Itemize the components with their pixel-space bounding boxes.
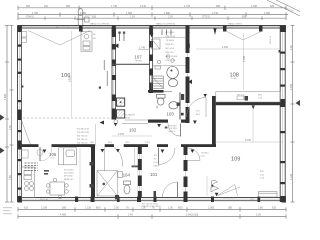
svg-text:2.06: 2.06 (256, 214, 261, 217)
svg-text:4.485: 4.485 (60, 214, 67, 217)
bath shelf line (154, 37, 185, 39)
svg-text:DU 90/90: DU 90/90 (166, 32, 176, 34)
interior wall W6 right segment (181, 120, 190, 123)
bottom dimension row1 (18, 207, 286, 211)
left wall handle dot (22, 86, 24, 88)
door leaf 105 (39, 147, 41, 161)
door threshold 104 (132, 166, 142, 168)
door arc hall to 108 (187, 98, 207, 118)
svg-text:ABL. DN100: ABL. DN100 (166, 55, 178, 58)
bottom wall tilt triangle (218, 185, 238, 196)
105 wall boxes left (22, 150, 43, 159)
door arc 105 (40, 148, 52, 162)
105 text cluster (64, 170, 74, 181)
door arc corridor to 109 (188, 148, 201, 161)
109 window tilt leaf (219, 187, 241, 195)
svg-text:2.01 DIN: 2.01 DIN (169, 128, 178, 130)
svg-text:1.26: 1.26 (130, 16, 135, 19)
arrow below W3 pier (150, 33, 154, 38)
svg-text:SCHACHT: SCHACHT (125, 114, 136, 117)
W5 thin continuation (164, 90, 173, 92)
107 door tags (120, 32, 125, 41)
arrow below W4 pier (186, 33, 190, 37)
door leaf 103 (180, 124, 182, 137)
door arc 101 bottom (177, 182, 179, 197)
svg-text:T05 76/2.01: T05 76/2.01 (77, 139, 89, 141)
break line top-right corner (267, 0, 300, 16)
svg-text:K02 60/60: K02 60/60 (64, 173, 74, 175)
arrow at W4 upper (186, 44, 190, 49)
tap mark 103 (177, 103, 180, 106)
dimension line top tier3 (18, 16, 286, 20)
svg-text:TR 60/60: TR 60/60 (166, 40, 175, 42)
interior wall W3 vertical 107/bath (149, 28, 153, 93)
svg-text:T06 76/2.01: T06 76/2.01 (77, 143, 89, 145)
arrow on W7 left (193, 121, 197, 125)
chimney hatched block upper (117, 98, 125, 106)
svg-text:T09 88.5: T09 88.5 (169, 125, 178, 127)
corridor texts above chimney (125, 114, 136, 120)
corridor bottom wall segments (22, 144, 217, 147)
door tag 103 (157, 124, 161, 127)
left dimension texts (4, 93, 12, 180)
bottom dimension texts row2 (60, 214, 261, 217)
wall 101/109 vertical (184, 147, 188, 197)
105 dim line vertical (79, 148, 81, 197)
bath partition line y65 (153, 65, 186, 67)
arrow below top wall right (214, 29, 217, 36)
arrow at W4 lower (188, 80, 192, 85)
right wall handle dot (279, 50, 281, 53)
109 fixture cluster (211, 180, 219, 192)
outer wall right: face lines (280, 26, 285, 203)
sink 104 (118, 172, 123, 178)
svg-text:WC 6/0.4: WC 6/0.4 (166, 48, 176, 50)
right dimension column (291, 26, 295, 203)
svg-text:615: 615 (24, 207, 29, 210)
door arc corridor to 101 (158, 148, 160, 165)
vent stack valve box (85, 17, 90, 22)
wall 104/101 vertical (138, 147, 142, 197)
svg-text:76/: 76/ (154, 159, 157, 161)
svg-text:1.00: 1.00 (168, 207, 173, 210)
109 arrow (215, 193, 219, 197)
svg-text:1.49: 1.49 (128, 214, 133, 217)
right edge section mark (296, 100, 301, 106)
svg-text:103: 103 (167, 111, 175, 116)
top wall window spec texts (56, 27, 239, 29)
svg-text:WAND.TOL.FERTIG: WAND.TOL.FERTIG (90, 22, 109, 25)
svg-text:T03 88.5/2.01: T03 88.5/2.01 (77, 132, 91, 134)
bath inner partition (179, 93, 181, 120)
outer wall left: face lines (18, 26, 22, 203)
dashed beam 106 (23, 117, 112, 119)
window V bay1 (28, 31, 90, 46)
sink in 103 (169, 102, 178, 109)
svg-text:385: 385 (66, 5, 71, 8)
svg-text:BW 1.80: BW 1.80 (166, 52, 175, 54)
svg-text:626: 626 (242, 16, 247, 19)
bath double oval fixture (167, 67, 179, 87)
svg-text:F01 1.01/1.26: F01 1.01/1.26 (56, 27, 70, 29)
tall unit 106 right (81, 32, 92, 51)
dimension text top tier2 (32, 12, 271, 15)
interior wall 108 bottom (216, 102, 280, 105)
svg-text:1.860: 1.860 (264, 12, 271, 15)
dim line 106 vertical (71, 31, 73, 117)
svg-text:2.785: 2.785 (290, 83, 293, 90)
svg-text:1.780: 1.780 (32, 12, 39, 15)
bath circle small left (157, 60, 161, 64)
101 tag stack (154, 155, 160, 168)
door tag triangles corridor (43, 149, 195, 153)
outer wall right: glazing line (282, 26, 284, 203)
105 wall tag upper (90, 162, 94, 166)
interior wall W1 vertical 106/107 (112, 28, 116, 120)
bath small rect left (155, 66, 161, 69)
mark right of 103 label (181, 113, 184, 116)
svg-text:1.860: 1.860 (164, 12, 171, 15)
left wall door leaf 106 (22, 121, 31, 145)
floor drain circle 102 (114, 120, 118, 124)
svg-text:4.460: 4.460 (222, 46, 229, 49)
svg-text:4.125: 4.125 (290, 173, 293, 180)
svg-text:4.605: 4.605 (4, 93, 7, 100)
svg-text:2.785: 2.785 (243, 55, 246, 62)
interior wall W2 under 107 (112, 63, 150, 65)
arrow at W1 right (114, 44, 119, 49)
shower corner mark (115, 195, 119, 200)
svg-text:2.790: 2.790 (245, 139, 252, 142)
sideboard right marks (258, 95, 263, 100)
109 dim line horizontal (216, 107, 283, 142)
svg-text:2.56: 2.56 (290, 45, 293, 50)
svg-text:940: 940 (26, 5, 31, 8)
WC in 103 (157, 95, 166, 109)
shelf line 107 (138, 48, 150, 50)
left edge section mark 2 (0, 148, 5, 154)
109 vertical dim line left (206, 176, 208, 196)
bottom dimension texts row1 (24, 207, 277, 210)
svg-text:1.135: 1.135 (85, 207, 92, 210)
svg-text:1.86: 1.86 (9, 175, 12, 180)
svg-text:36/36: 36/36 (125, 118, 131, 120)
svg-text:105: 105 (49, 152, 57, 157)
arrows at corridor left (100, 121, 105, 125)
dimension line top tier2 (18, 12, 288, 16)
svg-text:102: 102 (129, 128, 137, 133)
svg-text:T02 88.5/2.01: T02 88.5/2.01 (77, 129, 91, 131)
svg-text:WAND.TOL.FERTIG: WAND.TOL.FERTIG (156, 22, 175, 25)
svg-text:HERD 60: HERD 60 (64, 179, 74, 181)
107 tag flags (118, 32, 125, 34)
svg-text:WAND.T.FERT: WAND.T.FERT (228, 22, 243, 25)
svg-text:(794.5): (794.5) (26, 16, 34, 19)
outer wall bottom: piers (18, 196, 287, 203)
dimension text top tier1 (26, 5, 275, 8)
corridor dim line (112, 135, 152, 137)
WC in 104 (124, 181, 131, 194)
svg-text:385: 385 (228, 207, 233, 210)
svg-text:T08 88.5/2.01 DIN-R: T08 88.5/2.01 DIN-R (142, 206, 162, 208)
svg-text:1.00: 1.00 (114, 207, 119, 210)
svg-text:1.456: 1.456 (251, 5, 258, 8)
door tags under top wall bay3 (162, 30, 171, 36)
svg-text:F02 1.01/1.26: F02 1.01/1.26 (153, 27, 167, 29)
108 sideboard (216, 92, 280, 102)
bath shower box (152, 39, 161, 49)
svg-text:HWB 50: HWB 50 (166, 44, 175, 46)
corridor top thin lines (122, 120, 148, 124)
svg-text:F11 1.01/1.26: F11 1.01/1.26 (222, 198, 236, 200)
108 item outline (237, 96, 244, 100)
bath duct block (181, 94, 184, 100)
wall 105/104 vertical (91, 147, 95, 197)
svg-text:615: 615 (272, 207, 277, 210)
svg-text:K01 60/60: K01 60/60 (64, 170, 74, 172)
stair ladder bath (152, 76, 164, 89)
left dimension column line2 (10, 26, 14, 203)
109 bench right (259, 192, 278, 198)
interior wall W6 left segment (148, 120, 168, 123)
vent stack above top wall (77, 9, 85, 26)
svg-text:1.745: 1.745 (111, 5, 118, 8)
svg-text:925: 925 (270, 5, 275, 8)
chimney hatched block lower (117, 110, 125, 118)
svg-text:17.65: 17.65 (231, 78, 237, 80)
svg-text:88.5: 88.5 (178, 207, 183, 210)
interior wall W5 horizontal in bath (148, 90, 164, 93)
outer wall right: piers (280, 26, 285, 203)
window V bay right (226, 31, 261, 40)
shower drain dot (103, 183, 106, 186)
105 wall tag lower (90, 184, 94, 188)
svg-text:107: 107 (134, 54, 142, 59)
svg-text:F03 1.26: F03 1.26 (230, 27, 239, 29)
108 sideboard dark item (245, 96, 249, 101)
wall 104/101 face line (134, 148, 136, 168)
104 door text cluster (142, 203, 162, 208)
bath text cluster (166, 32, 178, 62)
corridor texts above wall (91, 142, 152, 144)
svg-text:F05 1.26: F05 1.26 (270, 35, 272, 44)
svg-text:2.56: 2.56 (9, 125, 12, 130)
svg-text:TECHN: TECHN (135, 61, 143, 63)
top wall labels above (90, 22, 243, 25)
svg-text:101: 101 (150, 172, 158, 177)
outer wall bottom: glazing line (18, 198, 287, 200)
hall text cluster (196, 111, 201, 116)
outer wall top: face lines (18, 26, 287, 29)
interior wall W4 vertical bath/108 (186, 28, 190, 123)
drain arrow 102 (114, 123, 117, 126)
105 kitchen counter (22, 167, 35, 197)
svg-text:941: 941 (44, 5, 49, 8)
105 small marks (44, 170, 49, 175)
svg-text:88.5: 88.5 (96, 207, 101, 210)
svg-text:1.860: 1.860 (126, 12, 133, 15)
svg-text:2.740: 2.740 (212, 12, 219, 15)
svg-text:385: 385 (216, 5, 221, 8)
svg-text:1.745: 1.745 (139, 47, 146, 50)
outer wall left: piers (18, 26, 22, 203)
outer wall bottom: face lines (18, 198, 287, 201)
radiator 101 (154, 191, 157, 198)
svg-text:5.605: 5.605 (69, 75, 72, 82)
bath small circles (166, 55, 170, 59)
unit labels 106 (93, 34, 96, 40)
interior wall W7 vertical hall/109 (212, 96, 216, 147)
svg-text:T07 76/2.01 DIN-L: T07 76/2.01 DIN-L (142, 203, 160, 205)
svg-text:3.270: 3.270 (118, 133, 125, 136)
svg-text:DN100: DN100 (85, 15, 92, 17)
109 door tag text (201, 153, 210, 158)
109 right small text (260, 171, 265, 180)
109 dim tick (252, 106, 255, 110)
svg-text:T04 76/2.01: T04 76/2.01 (77, 136, 89, 138)
bottom-left stamp (3, 207, 12, 214)
shower 104 (97, 171, 118, 197)
svg-text:385: 385 (62, 207, 67, 210)
svg-text:BRH 0: BRH 0 (169, 131, 176, 133)
105 table with chairs (46, 178, 68, 199)
corridor annotation cluster left (77, 129, 91, 145)
108 interior dim horizontal (196, 33, 280, 90)
bottom wall window spec texts (40, 198, 254, 202)
dimension text top tier3 (26, 16, 247, 19)
103 bottom texts (169, 125, 178, 133)
svg-text:2.195: 2.195 (41, 207, 48, 210)
dimension line top tier1 (18, 6, 286, 10)
door arc 102 to 103 (168, 124, 181, 137)
partition 104 inner (104, 148, 106, 172)
hall arrow (204, 94, 207, 97)
corridor cluster rule (95, 124, 97, 146)
outer wall left: glazing line (18, 26, 20, 203)
svg-text:2.065: 2.065 (208, 207, 215, 210)
svg-text:1.745: 1.745 (184, 5, 191, 8)
outer wall top: glazing line (18, 26, 287, 28)
left dimension column line1 (5, 26, 9, 203)
105 bed under wall (59, 148, 77, 165)
svg-text:626: 626 (92, 16, 97, 19)
outer wall top: piers (18, 26, 287, 33)
svg-text:1.86: 1.86 (258, 207, 263, 210)
left edge section mark 1 (0, 115, 5, 121)
svg-text:DIN-R: DIN-R (154, 166, 160, 168)
svg-text:104: 104 (123, 173, 131, 178)
svg-text:1.26: 1.26 (168, 16, 173, 19)
svg-text:197.5: 197.5 (145, 142, 151, 144)
right dimension texts (290, 45, 293, 180)
door arc 104 (114, 148, 123, 167)
svg-text:3.94(2.010): 3.94(2.010) (186, 214, 198, 217)
W1 side annotations (104, 60, 105, 70)
svg-text:109: 109 (231, 157, 240, 163)
svg-text:2.140: 2.140 (140, 5, 147, 8)
kitchen boxes top-left 106 (22, 32, 27, 43)
108 sideboard items (237, 95, 245, 97)
svg-text:F10 2.01: F10 2.01 (40, 199, 49, 201)
svg-text:(775.5): (775.5) (202, 16, 210, 19)
svg-text:T11 88.5: T11 88.5 (201, 153, 210, 155)
bottom dimension row2 (18, 214, 286, 218)
tick 103 door (165, 127, 168, 129)
svg-text:SP 45/60: SP 45/60 (64, 176, 73, 178)
svg-text:KG: KG (93, 38, 96, 40)
105 radiator rows (25, 163, 39, 171)
